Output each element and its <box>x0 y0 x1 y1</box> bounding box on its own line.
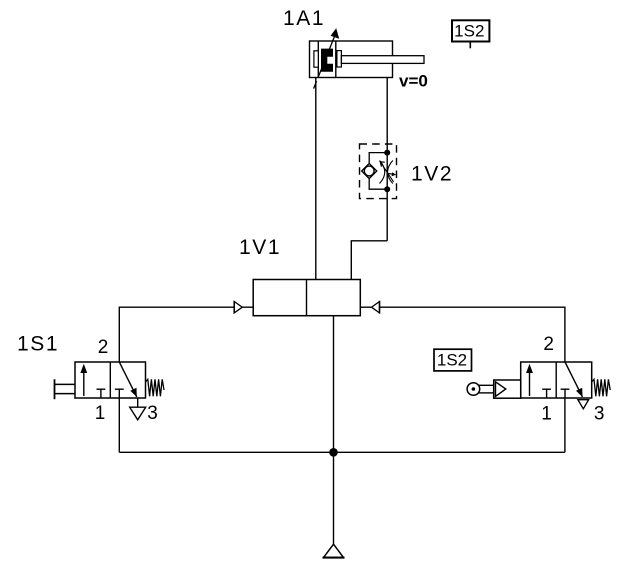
1S2 roller actuator box <box>494 380 521 398</box>
svg-text:3: 3 <box>594 403 605 424</box>
1S2 return spring <box>592 379 611 396</box>
1V1 left pilot triangle <box>234 302 242 313</box>
cylinder 1A1 right cushion boss <box>337 51 342 67</box>
1S2 right cell blocked port T <box>561 388 570 390</box>
flow control valve 1V2 dashed enclosure <box>360 144 397 199</box>
1S1 left cell blocked port T <box>97 388 106 390</box>
svg-text:1: 1 <box>541 404 552 425</box>
1V2 flow arrow <box>387 173 394 174</box>
1S1 right cell blocked port T <box>115 388 124 390</box>
marker box 1S2 top <box>452 20 489 41</box>
wire left pilot line <box>119 307 253 362</box>
wire right pilot line <box>360 307 565 362</box>
wire 1V1 bottom to supply rail <box>333 316 335 453</box>
1S1 return spring <box>146 379 165 396</box>
1S1 right cell exhaust diagonal arrow <box>119 362 137 397</box>
1S2 exhaust triangle <box>578 400 589 409</box>
wire 1S1 port1 drop <box>118 398 120 452</box>
svg-text:1V2: 1V2 <box>411 163 453 186</box>
cylinder 1A1 left cushion boss <box>314 51 318 67</box>
valve 1V1 body <box>253 280 360 316</box>
cylinder 1A1 motion arrow diagonal <box>314 81 317 89</box>
cylinder 1A1 motion arrow head <box>331 28 340 39</box>
valve 1S1 divider <box>109 362 111 398</box>
cylinder 1A1 piston left chamber line <box>317 41 319 78</box>
1V2 bottom junction dot <box>384 186 390 192</box>
valve 1S2 divider <box>555 362 557 398</box>
svg-text:1V1: 1V1 <box>239 236 281 259</box>
1S2 roller lever triangle <box>496 382 506 397</box>
marker box 1S2 bottom <box>434 349 472 371</box>
svg-text:2: 2 <box>543 334 554 355</box>
1V2 top junction dot <box>384 150 390 156</box>
1S1 exhaust triangle <box>130 407 146 420</box>
1V1 right pilot triangle <box>372 302 380 313</box>
1S2 roller wheel <box>467 383 480 396</box>
1V2 throttle right arc <box>388 161 393 184</box>
1V2 adjustment arrow <box>381 162 394 181</box>
1S2 left cell blocked port T <box>542 388 551 390</box>
1S1 exhaust stub <box>137 398 139 407</box>
1S1 left cell flow arrow <box>83 367 85 396</box>
wire cylinder left port to 1V1 top <box>315 78 317 280</box>
svg-text:1S2: 1S2 <box>437 350 467 369</box>
valve 1V1 divider <box>306 280 308 316</box>
svg-text:1S2: 1S2 <box>454 21 484 40</box>
compressed air source triangle <box>324 544 344 557</box>
1V2 check valve ball <box>364 166 374 176</box>
wire compressed air source drop <box>333 452 335 544</box>
valve 1S1 body <box>75 362 146 398</box>
1S1 plunger actuator <box>54 379 56 399</box>
cylinder 1A1 piston rod <box>341 56 424 64</box>
1V2 bypass wire <box>369 153 387 190</box>
cylinder 1A1 body <box>310 41 393 78</box>
cylinder 1A1 magnet block <box>321 49 333 72</box>
1V2 check valve seat diamond <box>362 163 377 178</box>
junction dot on supply rail <box>329 448 338 457</box>
svg-text:1A1: 1A1 <box>283 7 325 30</box>
wire jog from 1V2 to 1V1 top <box>351 241 387 280</box>
1S2 roller rod lines <box>478 384 494 386</box>
svg-text:2: 2 <box>98 337 109 358</box>
1S2 left cell flow arrow <box>529 367 531 396</box>
1S2 right cell exhaust diagonal arrow <box>565 362 583 397</box>
1V2 throttle left arc <box>380 161 385 184</box>
cylinder 1A1 piston line <box>335 41 337 78</box>
valve 1S2 body <box>521 362 592 398</box>
svg-text:1S1: 1S1 <box>17 332 59 355</box>
wire bottom supply rail <box>119 451 565 453</box>
svg-text:3: 3 <box>147 403 158 424</box>
svg-text:v=0: v=0 <box>399 72 428 91</box>
wire 1S2 valve port1 drop <box>564 398 566 452</box>
svg-text:1: 1 <box>95 403 106 424</box>
wire cylinder right port through 1V2 <box>386 78 388 241</box>
